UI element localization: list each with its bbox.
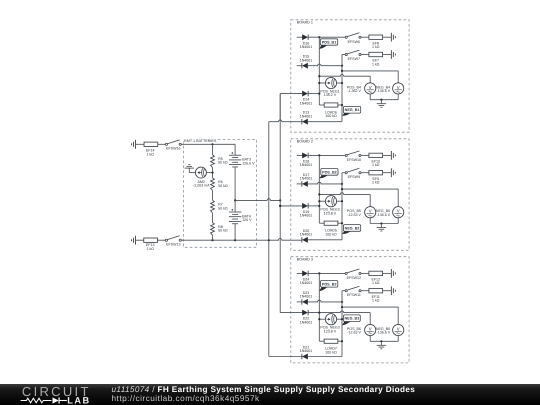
wire D16 cathode to switch EFSW6	[308, 36, 345, 38]
wire LOAD7 to bus	[338, 340, 342, 342]
junction voltmeter ground	[380, 99, 382, 101]
svg-text:V: V	[397, 85, 400, 90]
ground (below voltmeters)	[377, 227, 386, 229]
diode D20	[302, 237, 307, 242]
wire resistor EF8 to ground	[383, 36, 391, 38]
switch EFSW13	[165, 239, 167, 241]
svg-text:-136.6 V: -136.6 V	[377, 213, 391, 217]
switch EFSW16	[165, 143, 167, 145]
wire voltmeter bottoms	[369, 218, 371, 224]
svg-text:1N4001: 1N4001	[300, 45, 313, 49]
wire ground to EF13	[136, 239, 144, 241]
wire EFSW16 into battery box	[181, 143, 235, 145]
wire D19 cathode to POS rail	[308, 205, 319, 207]
wire down to voltmeter POS_B5	[369, 194, 371, 206]
resistor LOAD7	[324, 339, 338, 343]
wire resistor EF11 to ground	[383, 290, 391, 292]
wire stub to ground	[380, 100, 382, 104]
svg-text:V: V	[369, 209, 372, 214]
wire bus to switch EFSW9	[342, 172, 345, 174]
wire POS to voltmeter POS_B4 (hops right bus)	[319, 74, 370, 76]
svg-text:1 kΩ: 1 kΩ	[372, 45, 380, 49]
svg-text:-136.6 V: -136.6 V	[377, 89, 391, 93]
svg-text:126 V: 126 V	[242, 218, 252, 222]
resistor EF10	[369, 153, 383, 157]
svg-text:-1.362 V: -1.362 V	[347, 89, 361, 93]
svg-text:1N4001: 1N4001	[300, 58, 313, 62]
diode D22	[302, 310, 307, 315]
net flag POS_B1	[319, 45, 327, 49]
svg-text:1N4001: 1N4001	[300, 163, 313, 167]
wire R column top lead	[212, 144, 214, 155]
junction on right bus	[341, 183, 343, 185]
wire left rail vertical (D13 to D21)	[268, 122, 270, 357]
wire stub to ground	[380, 224, 382, 228]
EMT 1 BATTERIES dashed outline	[184, 140, 257, 248]
resistor EF11	[369, 289, 383, 293]
resistor EF8	[369, 35, 383, 39]
svg-text:1N4001: 1N4001	[300, 349, 313, 353]
wire mid bus corner to D22	[280, 312, 302, 314]
svg-text:V: V	[397, 326, 400, 331]
resistor EF7	[369, 52, 383, 56]
resistor EF12	[369, 271, 383, 275]
wire D23 anode to bus (hops POS vertical)	[308, 300, 342, 302]
wire resistor EF9 to ground	[383, 172, 391, 174]
wire R6 to R7	[212, 191, 214, 201]
wire POS to meter POS_NEG1	[319, 82, 325, 84]
wire right bus vertical	[341, 173, 343, 240]
battery BAT3	[234, 144, 236, 155]
resistor EF13	[144, 238, 158, 242]
wire bottom rail through battery box to D20 (hops mid bus)	[181, 239, 302, 241]
junction R8 bottom	[211, 239, 213, 241]
svg-text:NEG_B2: NEG_B2	[345, 226, 360, 230]
wire bus to voltmeter NEG_B4	[342, 70, 398, 72]
diode D17	[302, 181, 307, 186]
wire D18 anode stub	[297, 154, 303, 156]
junction node POS at row D18	[318, 154, 320, 156]
svg-text:POS_B2: POS_B2	[322, 170, 337, 174]
svg-text:EFSW10: EFSW10	[347, 158, 361, 162]
wire bus to voltmeter NEG_B6	[342, 306, 398, 308]
board 2 dashed outline	[291, 139, 409, 251]
junction R5 top	[211, 143, 213, 145]
wire R5 to AM2 node	[212, 168, 214, 178]
wire bus to voltmeter NEG_B5	[342, 188, 398, 190]
ground (right of EF11)	[390, 286, 392, 295]
wire D16 anode stub	[297, 36, 303, 38]
EMT 1 BATTERIES label	[184, 138, 217, 142]
svg-text:u1115074 / FH Earthing System: u1115074 / FH Earthing System Single Sup…	[112, 385, 416, 394]
wire down to voltmeter NEG_B6	[397, 307, 399, 324]
svg-text:50 kΩ: 50 kΩ	[218, 229, 228, 233]
ground (left of EF14)	[135, 140, 137, 149]
voltmeter NEG_B5	[393, 207, 404, 218]
voltmeter POS_B4	[365, 83, 376, 94]
voltmeter POS_B6	[365, 324, 376, 335]
wire D23 cathode stub	[297, 301, 302, 303]
resistor R8	[211, 223, 215, 236]
svg-text:EFSW13: EFSW13	[166, 243, 180, 247]
wire bus to switch EFSW11	[342, 290, 345, 292]
svg-text:50 kΩ: 50 kΩ	[218, 161, 228, 165]
wire D15 anode to bus (hops POS vertical)	[308, 64, 342, 66]
ground (right of EF12)	[390, 269, 392, 278]
wire R7 to R8	[212, 213, 214, 223]
board 3 dashed outline	[291, 257, 409, 363]
svg-text:1N4001: 1N4001	[300, 295, 313, 299]
board 1 dashed outline	[291, 20, 409, 132]
svg-text:1N4001: 1N4001	[300, 320, 313, 324]
svg-text:1 kΩ: 1 kΩ	[146, 247, 154, 251]
ammeter AM2	[195, 167, 206, 178]
junction on right bus	[341, 65, 343, 67]
svg-text:1 kΩ: 1 kΩ	[146, 152, 154, 156]
wire meter POS_NEG1 to bus	[337, 82, 342, 84]
wire EF14 to switch EFSW16	[158, 143, 166, 145]
meter POS_NEG3	[325, 314, 336, 325]
switch EFSW12	[345, 272, 347, 274]
wire D21 anode to bus corner	[308, 356, 342, 358]
wire mid tap to mid bus (hops left rail)	[235, 199, 280, 201]
voltmeter NEG_B6	[393, 324, 404, 335]
diode D23	[302, 299, 307, 304]
wire POS rail corner to LOAD6	[319, 104, 324, 106]
wire D24 anode stub	[297, 272, 303, 274]
net flag NEG_B1	[342, 113, 351, 116]
svg-text:1N4001: 1N4001	[300, 281, 313, 285]
svg-text:126.6 V: 126.6 V	[242, 161, 255, 165]
diode D13	[302, 119, 307, 124]
junction mid bus	[279, 199, 281, 201]
wire bus to switch EFSW7	[342, 54, 345, 56]
svg-text:1 kΩ: 1 kΩ	[372, 281, 380, 285]
wire resistor EF7 to ground	[383, 54, 391, 56]
voltmeter NEG_B4	[393, 83, 404, 94]
wire left rail corner to D13 (hops mid bus)	[269, 120, 302, 122]
wire meter POS_NEG3 to bus	[337, 318, 342, 320]
wire switch EFSW12 to resistor EF12	[361, 272, 369, 274]
svg-text:EMT 1 BATTERIES: EMT 1 BATTERIES	[184, 139, 217, 143]
svg-text:-136.6 V: -136.6 V	[377, 331, 391, 335]
wire D20 anode to bus corner	[308, 239, 342, 241]
switch EFSW6	[345, 36, 347, 38]
ground (right of EF10)	[390, 151, 392, 160]
junction left rail at bottom wire	[268, 239, 270, 241]
svg-text:1 kΩ: 1 kΩ	[372, 299, 380, 303]
switch EFSW7	[345, 53, 347, 55]
ground (left of EF13)	[135, 236, 137, 245]
wire mid bus vertical (D14 to D22)	[279, 94, 281, 313]
wire D17 anode to bus (hops POS vertical)	[308, 182, 342, 184]
junction node POS at row D24	[318, 272, 320, 274]
wire down to voltmeter POS_B6	[369, 313, 371, 325]
wire D24 cathode to switch EFSW12	[308, 272, 345, 274]
svg-text:V: V	[397, 209, 400, 214]
svg-text:EFSW6: EFSW6	[348, 40, 360, 44]
svg-text:50 kΩ: 50 kΩ	[218, 206, 228, 210]
svg-text:100 kΩ: 100 kΩ	[325, 350, 337, 354]
svg-text:1 kΩ: 1 kΩ	[372, 181, 380, 185]
diode D15	[302, 63, 307, 68]
net flag POS_B2	[319, 175, 328, 178]
ground (below voltmeters)	[377, 103, 386, 105]
svg-text:100 kΩ: 100 kΩ	[325, 114, 337, 118]
wire AM2 to R column	[206, 172, 212, 174]
wire down to voltmeter NEG_B4	[397, 71, 399, 83]
wire BAT4 bottom	[234, 224, 236, 240]
switch EFSW11	[345, 290, 347, 292]
wire mid bus to D19	[280, 205, 302, 207]
diode D18	[302, 153, 307, 158]
diode D21	[302, 354, 307, 359]
wire meter POS_NEG2 to bus	[337, 200, 342, 202]
junction node POS at row D16	[318, 36, 320, 38]
svg-text:1N4001: 1N4001	[300, 214, 313, 218]
svg-text:135.2 V: 135.2 V	[324, 93, 337, 97]
ground (above AM2)	[185, 167, 194, 169]
svg-text:NEG_B1: NEG_B1	[345, 108, 360, 112]
svg-text:NEG_B3: NEG_B3	[345, 317, 360, 321]
resistor R7	[211, 200, 215, 213]
meter POS_NEG2	[325, 196, 336, 207]
junction voltmeter ground	[380, 340, 382, 342]
svg-text:1N4001: 1N4001	[300, 114, 313, 118]
wire switch EFSW7 to resistor EF7	[361, 54, 369, 56]
ground (right of EF9)	[390, 168, 392, 177]
svg-text:EFSW11: EFSW11	[347, 293, 361, 297]
svg-text:POS_B1: POS_B1	[322, 40, 337, 44]
wire switch EFSW9 to resistor EF9	[361, 172, 369, 174]
wire POS vertical rail	[318, 37, 320, 105]
svg-text:EFSW12: EFSW12	[347, 276, 361, 280]
svg-text:-12.63 V: -12.63 V	[347, 331, 361, 335]
svg-text:123.8 V: 123.8 V	[324, 211, 337, 215]
ground (right of EF8)	[390, 33, 392, 42]
voltmeter POS_B5	[365, 207, 376, 218]
wire D14 cathode to POS rail	[308, 93, 319, 95]
wire POS to voltmeter POS_B5 (hops right bus)	[319, 193, 370, 195]
wire resistor EF12 to ground	[383, 272, 391, 274]
svg-text:1 kΩ: 1 kΩ	[372, 62, 380, 66]
junction on right bus	[341, 301, 343, 303]
wire D18 cathode to switch EFSW10	[308, 154, 345, 156]
meter POS_NEG1	[325, 77, 336, 88]
svg-text:http://circuitlab.com/cqh36k4q: http://circuitlab.com/cqh36k4q5957k	[112, 394, 261, 403]
svg-text:123.8 V: 123.8 V	[324, 329, 337, 333]
junction battery mid tap	[234, 199, 236, 201]
net flag POS_B3	[319, 287, 328, 291]
wire mid bus to D19 junction	[279, 205, 281, 207]
wire right bus vertical	[341, 291, 343, 357]
svg-text:V: V	[369, 85, 372, 90]
wire D22 cathode to voltmeter POS_B6 (hops right bus)	[308, 311, 370, 313]
svg-text:1 kΩ: 1 kΩ	[372, 163, 380, 167]
junction BAT4 bottom	[234, 239, 236, 241]
wire right bus vertical	[341, 55, 343, 122]
wire BAT3 to BAT4	[234, 167, 236, 212]
wire D17 cathode stub	[297, 183, 302, 185]
wire EF13 to switch EFSW13	[157, 239, 165, 241]
svg-text:LAB: LAB	[67, 395, 90, 405]
svg-text:V: V	[369, 326, 372, 331]
battery BAT4	[229, 211, 241, 213]
svg-text:100 kΩ: 100 kΩ	[325, 232, 337, 236]
svg-text:EFSW16: EFSW16	[166, 147, 180, 151]
wire voltmeter bottoms	[369, 94, 371, 100]
resistor EF9	[369, 171, 383, 175]
svg-text:-12.63 V: -12.63 V	[347, 213, 361, 217]
net flag NEG_B2	[342, 231, 351, 234]
junction AM2	[211, 172, 213, 174]
svg-text:BOARD 1: BOARD 1	[297, 20, 313, 24]
wire R8 bottom lead	[212, 235, 214, 240]
svg-text:EFSW9: EFSW9	[348, 175, 360, 179]
svg-text:50 kΩ: 50 kΩ	[218, 184, 228, 188]
wire LOAD6 to bus	[338, 104, 342, 106]
svg-text:EFSW7: EFSW7	[348, 57, 360, 61]
svg-text:POS_B3: POS_B3	[322, 282, 337, 286]
diode D14	[302, 91, 307, 96]
switch EFSW9	[345, 172, 347, 174]
junction voltmeter ground	[380, 222, 382, 224]
resistor LOAD5	[324, 221, 338, 225]
svg-text:1N4001: 1N4001	[300, 233, 313, 237]
wire POS to meter POS_NEG3	[319, 318, 325, 320]
ground (right of EF7)	[390, 50, 392, 59]
wire ground to EF14	[136, 143, 144, 145]
wire switch EFSW6 to resistor EF8	[361, 36, 369, 38]
switch EFSW10	[345, 154, 347, 156]
resistor EF14	[144, 142, 158, 146]
svg-text:-1.263 mA: -1.263 mA	[193, 184, 210, 188]
diode D24	[302, 271, 307, 276]
wire ground down to AM2	[188, 168, 190, 172]
ground (below voltmeters)	[377, 344, 386, 346]
svg-text:1N4001: 1N4001	[300, 177, 313, 181]
wire POS to meter POS_NEG2	[319, 200, 325, 202]
wire stub to ground	[380, 341, 382, 345]
resistor R6	[211, 178, 215, 191]
resistor LOAD6	[324, 103, 338, 107]
svg-text:1N4001: 1N4001	[300, 101, 313, 105]
wire POS vertical rail	[318, 155, 320, 223]
wire switch EFSW10 to resistor EF10	[361, 154, 369, 156]
svg-text:BOARD 3: BOARD 3	[297, 257, 313, 261]
diode D16	[302, 35, 307, 40]
wire down to voltmeter NEG_B5	[397, 189, 399, 207]
resistor R5	[211, 155, 215, 168]
wire LOAD5 to bus	[338, 222, 342, 224]
wire resistor EF10 to ground	[383, 154, 391, 156]
wire left rail corner to D21	[269, 356, 302, 358]
wire D13 anode to bus corner	[308, 121, 342, 123]
wire POS rail corner to LOAD5	[319, 222, 324, 224]
CircuitLab logo resistor-diode squiggle	[21, 398, 52, 403]
diode D19	[302, 203, 307, 208]
net flag NEG_B3	[342, 321, 351, 325]
wire voltmeter bottoms	[369, 336, 371, 342]
svg-text:BOARD 2: BOARD 2	[297, 139, 313, 143]
wire switch EFSW11 to resistor EF11	[361, 290, 369, 292]
wire POS rail corner to LOAD7	[319, 340, 324, 342]
wire down to voltmeter POS_B4	[369, 76, 371, 83]
wire corner D14	[279, 94, 281, 122]
wire D15 cathode stub	[297, 65, 302, 67]
wire POS vertical rail	[318, 273, 320, 341]
